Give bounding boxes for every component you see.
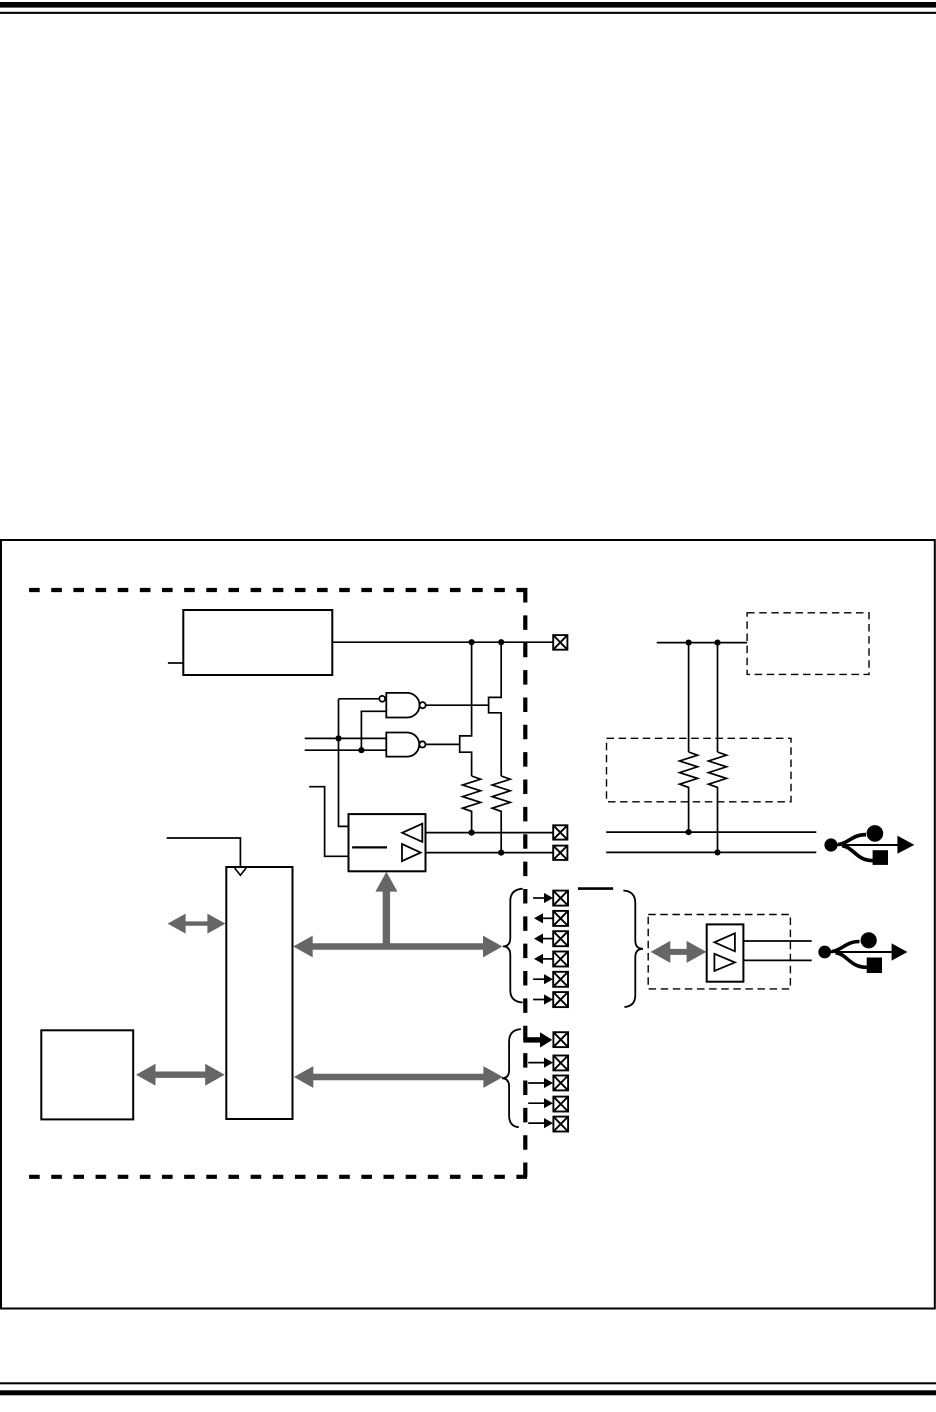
resistor R1 internal pull-up <box>463 776 481 833</box>
pin group1 row1 box <box>553 891 568 906</box>
pin group1 row2 box <box>553 911 568 926</box>
pin group2 row4 arrow <box>528 1098 553 1108</box>
SIE block U3 <box>226 867 292 1119</box>
pin group1 row2 arrow in <box>534 913 553 923</box>
USB icon 1 <box>824 825 914 865</box>
buffer U5 transmit triangle <box>714 954 735 971</box>
pin group2 row5 box <box>553 1117 568 1132</box>
wire U5 out lower <box>743 959 811 961</box>
wire VBUS node <box>657 642 747 644</box>
pin group2 row3 box <box>553 1076 568 1091</box>
wire G2 output to Q2 gate <box>426 743 460 745</box>
transceiver U2 <box>349 814 426 871</box>
pin group2 row1 box <box>553 1032 568 1047</box>
wire clock block input stub <box>168 662 183 664</box>
wire rail to transceiver enable <box>339 699 349 827</box>
node junction ext rail1 <box>686 640 692 646</box>
header rule thick <box>0 2 936 8</box>
brace left group1 <box>503 889 523 1003</box>
pin group1 row1 arrow out <box>533 893 553 903</box>
chip boundary dashed right <box>523 588 527 1177</box>
gray bus arrow SIE to pins group1 <box>293 936 502 958</box>
USB icon 2 <box>818 932 907 973</box>
dashed box VBUS option <box>747 613 869 675</box>
wire D- internal <box>426 852 554 854</box>
buffer U5 receive triangle <box>714 933 735 951</box>
wire external D+ bus <box>606 831 816 833</box>
node junction R1 to D+ line <box>469 830 475 836</box>
resistor R2 internal pull-up <box>492 776 510 853</box>
pin group2 row5 arrow <box>528 1118 553 1128</box>
resistor R4 external pull-up <box>709 752 727 853</box>
clock input notch on U3 <box>235 868 247 875</box>
node junction rail2 top <box>498 639 504 645</box>
resistor R3 external pull-up <box>680 752 698 832</box>
wire U5 out upper <box>743 940 811 942</box>
chip boundary dashed bottom <box>29 1175 527 1179</box>
transistor Q1 (jog in rail2) <box>489 642 502 776</box>
node junction R4 to external D- <box>714 849 720 855</box>
brace right group1 <box>623 891 643 1008</box>
footer rule thin <box>0 1382 936 1384</box>
pin group1 row3 arrow in <box>534 934 553 944</box>
footer rule thick <box>0 1390 936 1395</box>
pin group1 row4 box <box>553 952 568 967</box>
pin group1 row5 arrow out <box>533 974 553 984</box>
node junction ext rail2 <box>714 640 720 646</box>
pin group2 row4 box <box>553 1097 568 1112</box>
buffer U2 receive triangle <box>402 824 422 842</box>
pin group2 row1 thick arrow <box>523 1032 552 1047</box>
node junction input A / rail G1 <box>335 735 341 741</box>
label overline above group1 <box>578 887 613 890</box>
wire ext rail1 upper <box>688 643 690 752</box>
pin group1 row5 box <box>553 972 568 987</box>
buffer U2 transmit triangle <box>402 844 421 861</box>
wire input line A <box>305 737 387 739</box>
node junction input B <box>358 747 364 753</box>
wire clock output to VUSB pin <box>332 641 553 643</box>
gray bus arrow external transceiver <box>651 941 707 963</box>
pin D+ <box>553 825 567 839</box>
wire transceiver enable 2 <box>309 787 348 857</box>
wire D+ internal <box>426 832 554 834</box>
wire G1 top input <box>339 698 380 700</box>
dashed box external pull-ups <box>607 738 792 802</box>
wire G1 output to Q1 gate <box>426 704 489 706</box>
clock block U1 <box>183 610 332 675</box>
header rule thin <box>0 12 936 14</box>
gray bus arrow SIE left stub <box>168 914 226 934</box>
pin group2 row3 arrow <box>528 1078 553 1088</box>
gray bus arrow RAM to SIE <box>136 1064 225 1086</box>
gray arrow up to transceiver <box>375 872 397 947</box>
wire ext rail2 upper <box>717 643 719 752</box>
wire clock to SIE <box>167 838 241 867</box>
wire external D- bus <box>606 851 816 853</box>
pin group1 row4 arrow in <box>534 954 553 964</box>
pin group1 row6 box <box>553 992 568 1007</box>
wire input line B <box>305 749 387 751</box>
gray bus arrow SIE to pins group2 <box>294 1066 503 1088</box>
chip boundary dashed top <box>29 588 527 592</box>
transistor Q2 (jog in rail1) <box>460 642 472 776</box>
external transceiver U5 <box>707 924 744 981</box>
pin D- <box>553 846 567 860</box>
label overline inside U2 <box>352 846 387 848</box>
wire G1 bottom input <box>361 711 386 750</box>
dashed box external transceiver <box>648 915 790 989</box>
pin group2 row2 box <box>553 1056 568 1071</box>
pin group1 row3 box <box>553 931 568 946</box>
brace left group2 <box>502 1029 521 1127</box>
node junction rail1 top <box>469 639 475 645</box>
nand gate G2 <box>386 733 425 757</box>
figure frame <box>1 540 935 1309</box>
node junction R3 to external D+ <box>686 829 692 835</box>
pin group2 row2 arrow <box>528 1058 553 1068</box>
pin VUSB <box>553 635 567 650</box>
nand gate G1 <box>379 693 425 718</box>
USB RAM block U4 <box>41 1030 133 1119</box>
pin group1 row6 arrow out <box>533 994 553 1004</box>
node junction R2 to D- line <box>498 850 504 856</box>
